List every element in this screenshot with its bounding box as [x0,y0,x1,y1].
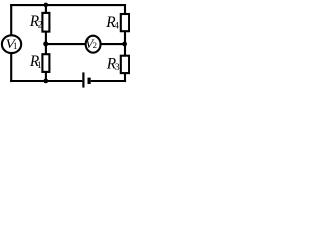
wire: left branch lower segment [10,53,12,82]
resistor R4 [121,14,129,31]
wire: right branch between R4 and R3 [124,31,126,56]
wire: top bus [10,4,126,6]
wire: voltmeter V2 right lead [100,43,125,45]
svg-text:1: 1 [37,60,42,70]
svg-text:2: 2 [38,21,43,31]
battery cell: short negative plate [88,78,91,84]
svg-text:3: 3 [115,63,120,73]
wire: middle branch between R2 and R1 [45,31,47,54]
wire: left branch upper segment [10,4,12,36]
wire: bottom bus right of battery [91,80,126,82]
wire: middle branch stub top [45,4,47,13]
resistor R3 [121,56,129,73]
resistor R2 [42,13,49,32]
wire: right branch stub bottom [124,73,126,82]
wire: bottom bus left of battery [10,80,82,82]
resistor R1 [42,54,49,72]
node: junction middle branch and bottom bus [43,79,48,84]
node: junction of middle branch and top bus [44,3,49,8]
voltmeter V1 [2,35,21,53]
voltmeter V2 [85,36,100,53]
wire: middle branch stub bottom [45,72,47,82]
wire: voltmeter V2 left lead [46,43,86,45]
node: junction middle branch with voltmeter V2 wire [43,41,48,46]
svg-text:2: 2 [93,40,97,50]
wire: right branch stub top [124,4,126,14]
svg-text:4: 4 [114,22,119,32]
battery cell: long positive plate [82,72,84,87]
node: junction right branch with voltmeter V2 wire [122,42,127,47]
svg-text:1: 1 [13,41,18,51]
